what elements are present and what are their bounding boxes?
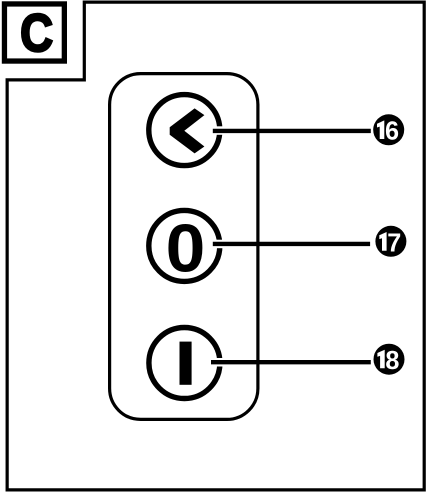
svg-text:8: 8 — [385, 347, 399, 375]
svg-text:7: 7 — [387, 229, 401, 257]
svg-text:C: C — [20, 4, 53, 63]
svg-text:6: 6 — [385, 117, 399, 145]
svg-text:0: 0 — [166, 210, 206, 286]
